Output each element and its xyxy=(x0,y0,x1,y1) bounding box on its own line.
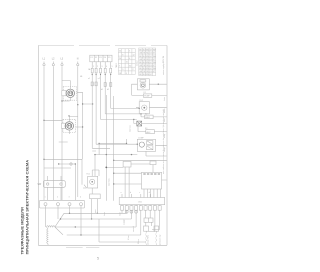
svg-text:c: c xyxy=(139,192,140,194)
svg-text:F2: F2 xyxy=(95,57,97,59)
svg-text:F1: F1 xyxy=(91,57,93,59)
svg-text:door lock: door lock xyxy=(107,178,110,186)
svg-text:COMP: COMP xyxy=(138,138,144,140)
svg-text:FAN2: FAN2 xyxy=(145,116,150,119)
svg-text:b: b xyxy=(130,192,131,194)
svg-text:drain: drain xyxy=(163,97,166,101)
svg-text:vent: vent xyxy=(94,209,97,213)
svg-text:ТРЕХФАЗНЫЕ МОДЕЛИ: ТРЕХФАЗНЫЕ МОДЕЛИ xyxy=(20,207,25,254)
svg-text:2: 2 xyxy=(133,69,134,71)
svg-text:12: 12 xyxy=(133,54,135,56)
svg-text:2: 2 xyxy=(57,197,58,199)
svg-text:door sw: door sw xyxy=(129,125,132,132)
svg-text:6: 6 xyxy=(129,58,130,60)
svg-text:30: 30 xyxy=(129,65,131,67)
svg-text:5: 5 xyxy=(97,257,99,261)
svg-text:L line: L line xyxy=(128,236,130,240)
svg-text:TAB 1: TAB 1 xyxy=(115,63,118,68)
svg-text:24: 24 xyxy=(119,58,121,60)
svg-text:CN1: CN1 xyxy=(138,202,142,204)
svg-text:d: d xyxy=(149,192,150,194)
svg-text:4: 4 xyxy=(80,197,81,199)
svg-text:F3: F3 xyxy=(99,57,101,59)
svg-text:mains supply 400V 3N: mains supply 400V 3N xyxy=(163,55,165,75)
svg-text:N line: N line xyxy=(138,239,140,244)
svg-text:F4: F4 xyxy=(104,57,106,59)
svg-text:ПРИНЦИПИАЛЬНАЯ ЭЛЕКТРИЧЕСКАЯ С: ПРИНЦИПИАЛЬНАЯ ЭЛЕКТРИЧЕСКАЯ СХЕМА xyxy=(24,160,29,255)
svg-text:3: 3 xyxy=(129,51,130,53)
svg-text:1: 1 xyxy=(45,197,46,199)
svg-text:wire colours and connector fun: wire colours and connector functions on … xyxy=(162,109,165,174)
svg-text:K3: K3 xyxy=(145,128,147,130)
svg-text:pressure sw: pressure sw xyxy=(159,234,162,245)
svg-text:8: 8 xyxy=(122,54,123,56)
svg-text:3: 3 xyxy=(101,66,102,68)
svg-text:5: 5 xyxy=(112,66,113,68)
svg-text:a1: a1 xyxy=(88,78,90,80)
svg-text:9: 9 xyxy=(122,69,123,71)
svg-text:4: 4 xyxy=(106,66,107,68)
svg-text:a2: a2 xyxy=(98,78,100,80)
svg-text:neutral: neutral xyxy=(132,226,135,232)
svg-text:1: 1 xyxy=(93,66,94,68)
svg-text:18: 18 xyxy=(119,73,121,75)
svg-text:RL1: RL1 xyxy=(87,174,90,176)
svg-text:3: 3 xyxy=(69,197,70,199)
svg-text:Colour: Colour xyxy=(136,60,139,66)
svg-text:2: 2 xyxy=(97,66,98,68)
svg-text:K2: K2 xyxy=(145,113,147,115)
svg-text:F5: F5 xyxy=(108,57,110,59)
svg-text:K1: K1 xyxy=(144,92,146,94)
svg-text:4: 4 xyxy=(126,73,127,75)
svg-text:supply: supply xyxy=(124,219,126,225)
svg-text:drain: drain xyxy=(103,212,106,216)
svg-text:15: 15 xyxy=(126,62,128,64)
svg-text:RL2: RL2 xyxy=(140,100,143,102)
svg-text:7: 7 xyxy=(119,65,120,67)
svg-text:sensor NTC: sensor NTC xyxy=(147,234,150,245)
svg-text:PUMP: PUMP xyxy=(144,96,150,98)
svg-text:50: 50 xyxy=(119,51,121,53)
svg-text:b1: b1 xyxy=(101,89,103,91)
svg-text:b2: b2 xyxy=(107,89,109,91)
svg-text:main: main xyxy=(119,212,121,216)
